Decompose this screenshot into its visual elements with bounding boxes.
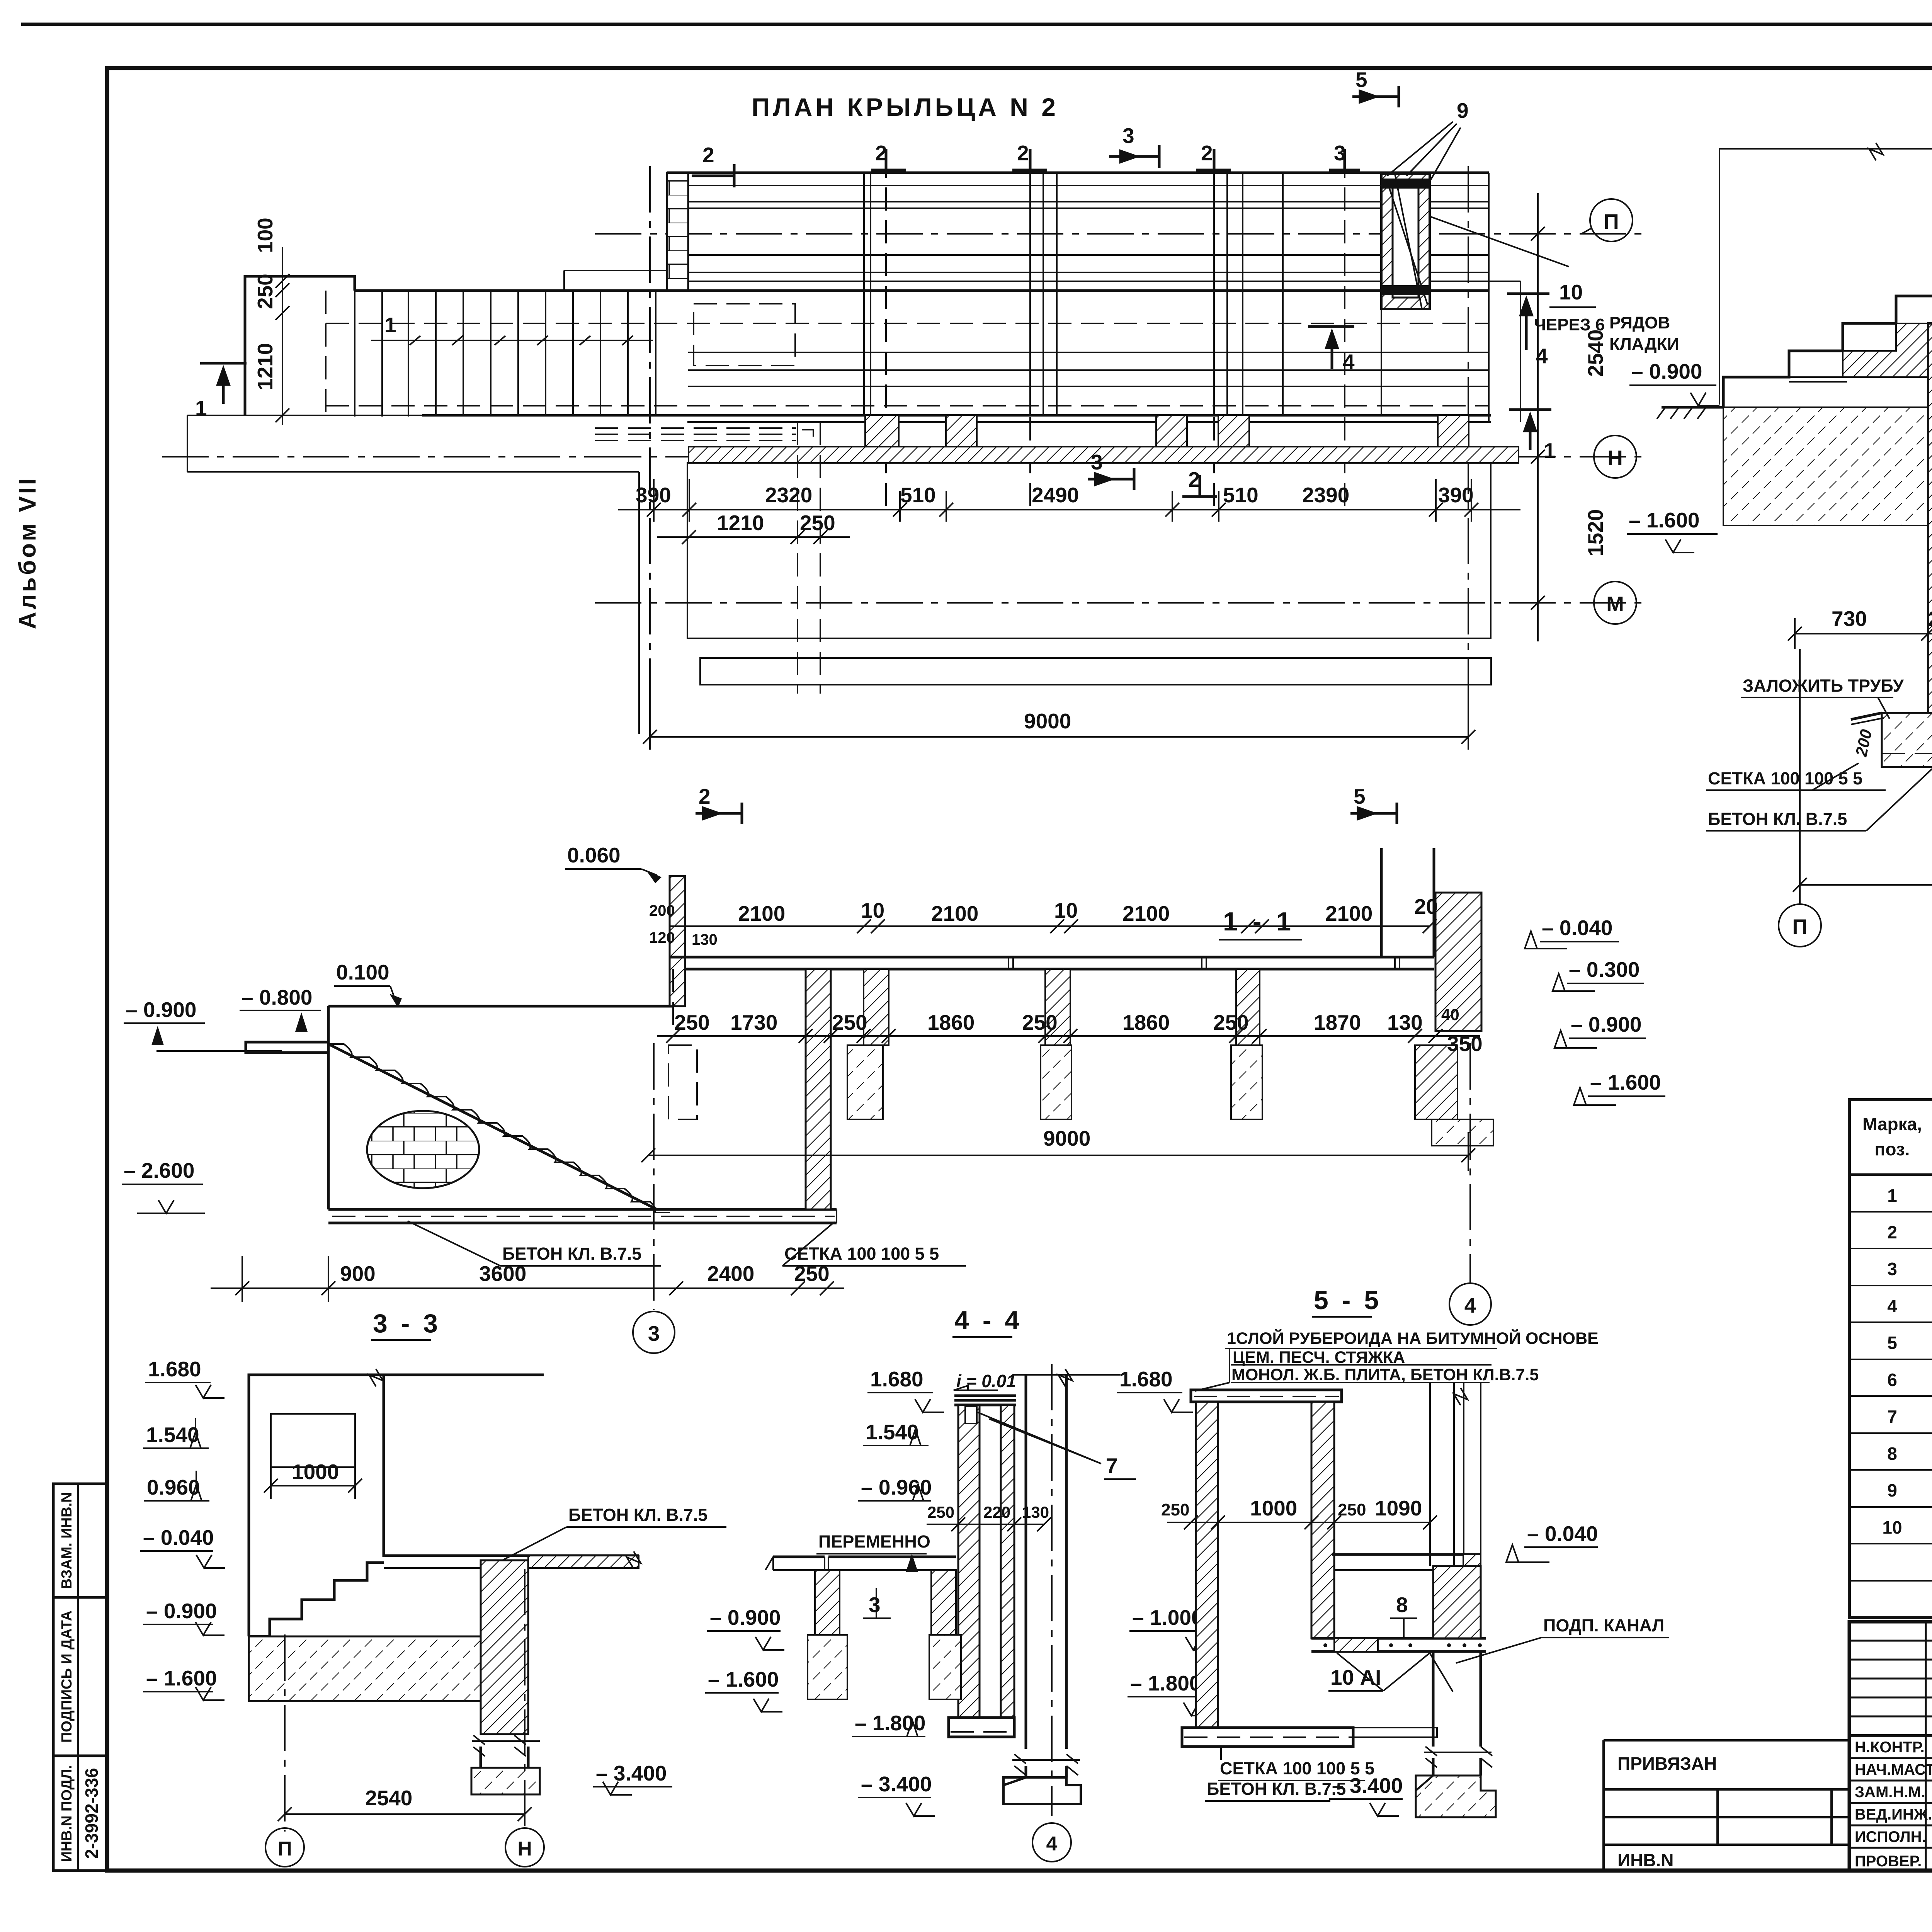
svg-text:2100: 2100 bbox=[1122, 901, 1170, 925]
svg-text:7: 7 bbox=[1106, 1454, 1118, 1478]
svg-text:130: 130 bbox=[692, 931, 718, 948]
svg-text:2100: 2100 bbox=[931, 901, 978, 925]
svg-text:3: 3 bbox=[1122, 124, 1134, 148]
svg-text:10: 10 bbox=[861, 898, 884, 922]
svg-text:1210: 1210 bbox=[253, 343, 277, 390]
svg-text:НАЧ.МАСТ.: НАЧ.МАСТ. bbox=[1855, 1761, 1932, 1778]
svg-text:1: 1 bbox=[1544, 439, 1556, 463]
svg-text:i = 0.01: i = 0.01 bbox=[956, 1371, 1016, 1391]
svg-text:1730: 1730 bbox=[730, 1010, 777, 1034]
svg-text:– 0.900: – 0.900 bbox=[1631, 359, 1702, 383]
svg-text:СЕТКА 100 100 5 5: СЕТКА 100 100 5 5 bbox=[1708, 769, 1862, 788]
svg-text:3: 3 bbox=[1887, 1259, 1897, 1279]
svg-text:1090: 1090 bbox=[1375, 1496, 1422, 1520]
svg-text:10: 10 bbox=[1882, 1517, 1902, 1537]
svg-text:2: 2 bbox=[1188, 468, 1200, 492]
svg-text:2100: 2100 bbox=[1325, 901, 1372, 925]
svg-text:730: 730 bbox=[1832, 607, 1867, 631]
svg-text:ВЕД.ИНЖ.: ВЕД.ИНЖ. bbox=[1855, 1806, 1932, 1823]
svg-text:– 1.800: – 1.800 bbox=[855, 1711, 926, 1735]
svg-text:130: 130 bbox=[1022, 1503, 1049, 1521]
svg-text:2: 2 bbox=[1201, 141, 1213, 165]
svg-text:250: 250 bbox=[800, 511, 835, 535]
svg-text:900: 900 bbox=[340, 1262, 376, 1286]
svg-text:0.100: 0.100 bbox=[336, 960, 389, 984]
svg-text:2490: 2490 bbox=[1032, 483, 1079, 507]
svg-text:8: 8 bbox=[1396, 1593, 1408, 1617]
svg-text:М: М bbox=[1606, 592, 1624, 616]
svg-text:– 0.040: – 0.040 bbox=[1527, 1522, 1598, 1546]
svg-text:4: 4 bbox=[1887, 1296, 1897, 1316]
svg-text:2: 2 bbox=[702, 143, 714, 167]
svg-text:510: 510 bbox=[1223, 483, 1259, 507]
svg-text:Н: Н bbox=[517, 1838, 532, 1860]
svg-text:2-3992-336: 2-3992-336 bbox=[82, 1768, 102, 1859]
svg-text:20: 20 bbox=[1414, 895, 1438, 918]
svg-text:200: 200 bbox=[649, 902, 675, 919]
svg-text:250: 250 bbox=[927, 1503, 954, 1521]
svg-text:3: 3 bbox=[1091, 450, 1103, 474]
svg-text:– 3.400: – 3.400 bbox=[861, 1772, 932, 1796]
svg-text:250: 250 bbox=[674, 1010, 710, 1034]
svg-text:4: 4 bbox=[1046, 1833, 1058, 1855]
svg-text:– 1.000: – 1.000 bbox=[1132, 1605, 1203, 1629]
svg-text:10: 10 bbox=[1054, 898, 1078, 922]
svg-text:РЯДОВ: РЯДОВ bbox=[1609, 313, 1670, 332]
svg-text:1.680: 1.680 bbox=[870, 1367, 923, 1391]
svg-text:8: 8 bbox=[1887, 1444, 1897, 1464]
svg-text:9000: 9000 bbox=[1043, 1126, 1090, 1150]
svg-text:390: 390 bbox=[636, 483, 671, 507]
svg-text:1 - 1: 1 - 1 bbox=[1223, 907, 1295, 936]
svg-text:2540: 2540 bbox=[1583, 330, 1607, 377]
svg-text:390: 390 bbox=[1438, 483, 1474, 507]
svg-text:130: 130 bbox=[1387, 1010, 1423, 1034]
svg-text:ЗАМ.Н.М.: ЗАМ.Н.М. bbox=[1855, 1784, 1925, 1801]
svg-text:510: 510 bbox=[900, 483, 936, 507]
svg-text:250: 250 bbox=[1338, 1500, 1366, 1519]
svg-text:250: 250 bbox=[253, 274, 277, 309]
svg-text:1000: 1000 bbox=[1250, 1496, 1297, 1520]
svg-text:– 1.800: – 1.800 bbox=[1130, 1671, 1201, 1695]
svg-text:4 - 4: 4 - 4 bbox=[954, 1306, 1022, 1335]
svg-text:поз.: поз. bbox=[1875, 1139, 1910, 1159]
svg-text:5 - 5: 5 - 5 bbox=[1314, 1286, 1382, 1315]
svg-text:ПРИВЯЗАН: ПРИВЯЗАН bbox=[1617, 1753, 1717, 1774]
svg-text:100: 100 bbox=[253, 218, 277, 253]
svg-text:10: 10 bbox=[1559, 280, 1583, 304]
svg-text:2320: 2320 bbox=[765, 483, 812, 507]
svg-text:250: 250 bbox=[1213, 1010, 1249, 1034]
svg-text:250: 250 bbox=[794, 1262, 830, 1286]
svg-text:БЕТОН КЛ. В.7.5: БЕТОН КЛ. В.7.5 bbox=[502, 1244, 641, 1264]
svg-text:ПОДП. КАНАЛ: ПОДП. КАНАЛ bbox=[1543, 1616, 1664, 1635]
svg-text:2540: 2540 bbox=[365, 1786, 412, 1810]
svg-text:– 0.900: – 0.900 bbox=[1571, 1012, 1642, 1036]
svg-text:– 3.400: – 3.400 bbox=[596, 1761, 667, 1785]
svg-text:– 0.900: – 0.900 bbox=[710, 1605, 781, 1629]
svg-text:3: 3 bbox=[648, 1321, 660, 1345]
svg-text:ИНВ.N ПОДЛ.: ИНВ.N ПОДЛ. bbox=[59, 1765, 75, 1862]
svg-text:Альбом VII: Альбом VII bbox=[14, 476, 41, 629]
svg-text:ЦЕМ. ПЕСЧ. СТЯЖКА: ЦЕМ. ПЕСЧ. СТЯЖКА bbox=[1233, 1348, 1405, 1367]
svg-text:БЕТОН КЛ. В.7.5: БЕТОН КЛ. В.7.5 bbox=[568, 1505, 707, 1525]
svg-text:7: 7 bbox=[1887, 1406, 1897, 1427]
svg-text:1520: 1520 bbox=[1583, 509, 1607, 556]
svg-text:40: 40 bbox=[1441, 1005, 1459, 1024]
svg-text:1СЛОЙ РУБЕРОИДА НА БИТУМНОЙ ОС: 1СЛОЙ РУБЕРОИДА НА БИТУМНОЙ ОСНОВЕ bbox=[1227, 1329, 1599, 1348]
svg-text:250: 250 bbox=[832, 1010, 867, 1034]
svg-text:2: 2 bbox=[699, 784, 711, 808]
svg-text:– 3.400: – 3.400 bbox=[1332, 1774, 1403, 1798]
svg-text:2390: 2390 bbox=[1302, 483, 1349, 507]
svg-text:1.680: 1.680 bbox=[148, 1357, 201, 1381]
svg-text:3 - 3: 3 - 3 bbox=[373, 1309, 441, 1338]
svg-text:– 1.600: – 1.600 bbox=[1629, 508, 1700, 532]
svg-text:2: 2 bbox=[1887, 1222, 1897, 1242]
svg-text:МОНОЛ. Ж.Б. ПЛИТА, БЕТОН КЛ.В.: МОНОЛ. Ж.Б. ПЛИТА, БЕТОН КЛ.В.7.5 bbox=[1231, 1366, 1539, 1384]
svg-text:5: 5 bbox=[1355, 68, 1367, 92]
svg-text:П: П bbox=[277, 1838, 292, 1860]
svg-text:4: 4 bbox=[1343, 350, 1355, 374]
svg-text:– 0.300: – 0.300 bbox=[1569, 957, 1640, 981]
svg-text:1: 1 bbox=[1887, 1185, 1897, 1206]
svg-text:Марка,: Марка, bbox=[1862, 1114, 1922, 1134]
svg-text:1860: 1860 bbox=[927, 1010, 975, 1034]
svg-text:2400: 2400 bbox=[707, 1262, 754, 1286]
svg-text:250: 250 bbox=[1161, 1500, 1189, 1519]
svg-text:2: 2 bbox=[875, 141, 887, 165]
svg-text:П: П bbox=[1792, 915, 1808, 939]
svg-text:9: 9 bbox=[1887, 1480, 1897, 1500]
svg-text:4: 4 bbox=[1536, 344, 1548, 368]
svg-text:– 2.600: – 2.600 bbox=[124, 1158, 195, 1182]
svg-text:350: 350 bbox=[1447, 1032, 1483, 1056]
svg-text:3: 3 bbox=[869, 1593, 881, 1617]
svg-text:– 0.040: – 0.040 bbox=[1542, 916, 1613, 940]
svg-text:БЕТОН КЛ. В.7.5: БЕТОН КЛ. В.7.5 bbox=[1708, 809, 1847, 829]
svg-text:БЕТОН КЛ. В.7.5: БЕТОН КЛ. В.7.5 bbox=[1207, 1779, 1346, 1799]
svg-text:120: 120 bbox=[649, 929, 675, 946]
svg-text:250: 250 bbox=[1022, 1010, 1058, 1034]
svg-text:1000: 1000 bbox=[292, 1460, 339, 1484]
svg-text:ЗАЛОЖИТЬ ТРУБУ: ЗАЛОЖИТЬ ТРУБУ bbox=[1743, 676, 1904, 696]
svg-text:ПЛАН КРЫЛЬЦА N 2: ПЛАН КРЫЛЬЦА N 2 bbox=[752, 93, 1059, 121]
svg-text:9: 9 bbox=[1457, 99, 1469, 122]
svg-text:ИНВ.N: ИНВ.N bbox=[1617, 1850, 1674, 1870]
svg-text:220: 220 bbox=[983, 1503, 1010, 1521]
svg-text:250: 250 bbox=[1928, 607, 1932, 631]
svg-text:– 0.040: – 0.040 bbox=[143, 1526, 214, 1549]
svg-text:0.060: 0.060 bbox=[567, 843, 621, 867]
svg-text:ПЕРЕМЕННО: ПЕРЕМЕННО bbox=[818, 1532, 930, 1551]
svg-text:ВЗАМ. ИНВ.N: ВЗАМ. ИНВ.N bbox=[59, 1492, 75, 1589]
svg-text:1.540: 1.540 bbox=[866, 1420, 919, 1444]
svg-text:9000: 9000 bbox=[1024, 709, 1071, 733]
svg-text:5: 5 bbox=[1354, 784, 1366, 808]
svg-text:1860: 1860 bbox=[1122, 1010, 1170, 1034]
svg-text:3: 3 bbox=[1334, 141, 1346, 165]
svg-text:6: 6 bbox=[1887, 1370, 1897, 1390]
svg-text:– 0.900: – 0.900 bbox=[146, 1599, 217, 1623]
svg-text:– 1.600: – 1.600 bbox=[146, 1666, 217, 1690]
svg-text:1210: 1210 bbox=[717, 511, 764, 535]
svg-text:1: 1 bbox=[195, 396, 207, 420]
svg-text:ПРОВЕР.: ПРОВЕР. bbox=[1855, 1853, 1922, 1870]
svg-text:– 0.900: – 0.900 bbox=[126, 998, 197, 1022]
svg-text:2100: 2100 bbox=[738, 901, 785, 925]
svg-text:КЛАДКИ: КЛАДКИ bbox=[1609, 335, 1679, 354]
svg-text:1: 1 bbox=[384, 313, 396, 337]
svg-text:3600: 3600 bbox=[479, 1262, 526, 1286]
svg-text:П: П bbox=[1604, 209, 1619, 233]
svg-text:5: 5 bbox=[1887, 1333, 1897, 1353]
svg-text:Н.КОНТР.: Н.КОНТР. bbox=[1855, 1739, 1925, 1756]
svg-text:СЕТКА 100 100 5 5: СЕТКА 100 100 5 5 bbox=[784, 1244, 939, 1264]
svg-text:1.680: 1.680 bbox=[1119, 1367, 1173, 1391]
svg-text:– 1.600: – 1.600 bbox=[708, 1667, 779, 1691]
svg-text:1870: 1870 bbox=[1314, 1010, 1361, 1034]
svg-text:4: 4 bbox=[1464, 1293, 1476, 1317]
svg-text:ИСПОЛН.: ИСПОЛН. bbox=[1855, 1828, 1926, 1845]
svg-text:– 1.600: – 1.600 bbox=[1590, 1070, 1661, 1094]
svg-text:ПОДПИСЬ И ДАТА: ПОДПИСЬ И ДАТА bbox=[59, 1611, 75, 1743]
svg-text:2: 2 bbox=[1017, 141, 1029, 165]
svg-text:Н: Н bbox=[1607, 446, 1623, 470]
svg-text:– 0.800: – 0.800 bbox=[241, 985, 313, 1009]
